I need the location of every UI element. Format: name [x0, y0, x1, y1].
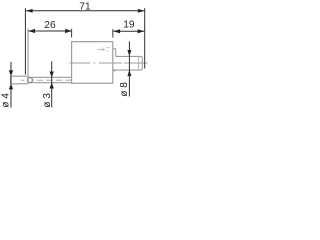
svg-text:ø 3: ø 3: [42, 93, 53, 108]
svg-text:ø 8: ø 8: [119, 82, 130, 97]
svg-text:26: 26: [44, 20, 56, 31]
svg-text:ø 4: ø 4: [1, 93, 12, 108]
svg-text:19: 19: [123, 19, 135, 30]
svg-text:71: 71: [79, 2, 91, 13]
